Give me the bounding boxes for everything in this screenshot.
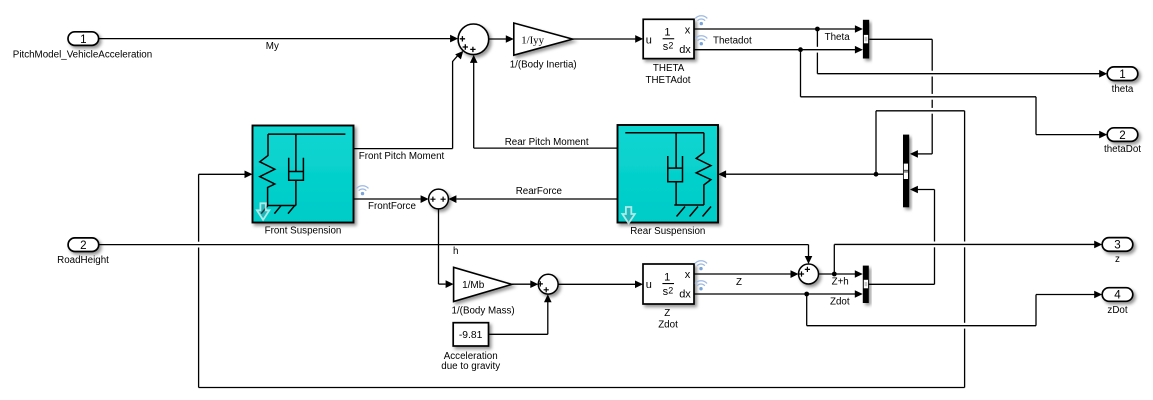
- wire FrontForce: [354, 198, 421, 200]
- rear suspension icon: spring: [696, 133, 711, 205]
- Rear Suspension subsystem: [618, 125, 719, 223]
- rear suspension icon: top bar: [625, 132, 704, 134]
- wire into bus3 lower input: [918, 189, 935, 191]
- wire thetaDot branch across: [801, 96, 1037, 98]
- sum block (front+rear force): [429, 189, 449, 209]
- front suspension icon: damper rod: [295, 134, 297, 171]
- outport 4 zDot: [1102, 288, 1133, 302]
- logging badge on FrontForce: [357, 186, 369, 196]
- svg-text:dx: dx: [679, 289, 691, 301]
- wire bus2 output: [869, 283, 935, 285]
- arrow into outport thetaDot: [1099, 131, 1107, 139]
- svg-text:Thetadot: Thetadot: [713, 36, 752, 47]
- front suspension icon: ground hatching: [261, 206, 294, 214]
- wire x output Theta: [694, 28, 856, 30]
- wire feedback riser to Front Suspension: [198, 174, 200, 387]
- arrow into outport theta: [1099, 70, 1107, 78]
- arrow into gain 1/Iyy: [506, 35, 514, 43]
- wire RearForce: [456, 198, 617, 200]
- arrow into Z+h sum north (down pointing): [805, 256, 813, 264]
- wire bus1 output: [869, 38, 932, 40]
- arrow into integrator Z: [635, 281, 643, 289]
- svg-text:due to gravity: due to gravity: [441, 361, 500, 372]
- wire to outport z: [834, 243, 1095, 245]
- outport 2 thetaDot: [1107, 128, 1138, 142]
- wire bottom feedback: [199, 387, 965, 389]
- svg-text:Z: Z: [664, 308, 670, 319]
- svg-text:FrontForce: FrontForce: [368, 201, 416, 212]
- wire gravity constant riser: [547, 302, 549, 334]
- wire Zdot branch across: [807, 325, 1036, 327]
- arrow into bus3 upper input (left pointing): [910, 150, 918, 158]
- svg-text:h: h: [453, 246, 458, 257]
- wire gain 1/Mb to gravity sum: [512, 283, 531, 285]
- svg-text:Front Suspension: Front Suspension: [265, 226, 342, 237]
- wire bus2 output riser up: [934, 190, 936, 285]
- svg-text:theta: theta: [1112, 84, 1134, 95]
- Front Suspension subsystem: [253, 126, 354, 223]
- inport 2 RoadHeight: [68, 238, 99, 252]
- inport 1 PitchModel_VehicleAcceleration: [68, 32, 99, 46]
- svg-text:THETAdot: THETAdot: [645, 75, 690, 86]
- wire zDot outport riser: [1035, 295, 1037, 326]
- svg-text:dx: dx: [679, 44, 691, 56]
- arrow into integrator THETA: [635, 35, 643, 43]
- node Z+h branch: [832, 272, 837, 277]
- svg-text:1: 1: [664, 27, 670, 39]
- integrator U1 THETA THETAdot: [643, 19, 694, 58]
- wire Zdot branch drop: [806, 294, 808, 326]
- svg-text:Rear Suspension: Rear Suspension: [630, 226, 705, 237]
- wire Rear Pitch Moment: [474, 147, 618, 149]
- wire gravity sum to integrator Z: [558, 283, 635, 285]
- rear suspension pale arrow badge: [622, 207, 634, 223]
- gain 1/Mb: [454, 267, 512, 301]
- svg-text:1: 1: [664, 272, 670, 284]
- arrow into Front Suspension: [245, 171, 253, 179]
- rear suspension icon: bottom bar: [674, 204, 704, 206]
- node Thetadot branch: [798, 47, 803, 52]
- front suspension icon: piston plate: [289, 171, 304, 173]
- wire sum to gain 1/Iyy: [489, 38, 507, 40]
- wire Z+h sum output: [819, 273, 856, 275]
- svg-text:-9.81: -9.81: [459, 330, 483, 341]
- svg-text:x: x: [685, 24, 691, 36]
- rear suspension icon: ground hatching: [677, 207, 712, 217]
- gain 1/Iyy: [514, 23, 573, 55]
- svg-text:2: 2: [668, 41, 673, 51]
- svg-text:4: 4: [1114, 289, 1121, 302]
- svg-text:x: x: [685, 269, 691, 281]
- wire gain to integrator THETA: [573, 38, 636, 40]
- node bus3 output branch: [874, 172, 879, 177]
- front suspension icon: spring: [260, 134, 275, 205]
- arrow into bus1 bottom: [855, 46, 863, 54]
- rear suspension icon: piston plate: [668, 167, 683, 169]
- wire bus3 output to Rear Suspension: [725, 173, 903, 175]
- sum block (pitch moments): [458, 24, 489, 55]
- integrator U2 Z Zdot: [643, 264, 694, 304]
- front suspension icon: top bar: [268, 133, 345, 135]
- arrow into sum south: [470, 55, 478, 63]
- arrow into sum southwest diagonal: [455, 48, 466, 59]
- wire to outport theta: [817, 73, 1100, 75]
- arrow into force sum west: [421, 195, 429, 203]
- wire feedback into Front Suspension: [199, 173, 245, 175]
- arrow into bus1 top: [855, 25, 863, 33]
- wire Z: [694, 273, 791, 275]
- bus creator 1 (Theta,Thetadot): [863, 20, 869, 59]
- wire bus1 output riser down: [931, 39, 933, 154]
- wire RoadHeight h: [99, 244, 808, 246]
- arrow into outport zDot: [1094, 291, 1102, 299]
- front suspension icon: lower rod: [295, 180, 297, 205]
- constant -9.81: [453, 323, 488, 346]
- wire long feedback riser right side: [964, 111, 966, 388]
- front suspension icon: damper cup: [289, 158, 304, 180]
- svg-text:1/(Body Mass): 1/(Body Mass): [452, 306, 515, 317]
- wire Front Pitch Moment riser + diagonal into sum: [453, 55, 459, 149]
- svg-text:1: 1: [80, 33, 86, 46]
- svg-text:zDot: zDot: [1107, 305, 1127, 316]
- wire bus3 branch top: [876, 110, 965, 112]
- arrow into Rear Suspension (left pointing): [718, 170, 726, 178]
- wire My: [99, 38, 451, 40]
- svg-text:Front Pitch Moment: Front Pitch Moment: [359, 151, 445, 162]
- svg-text:thetaDot: thetaDot: [1104, 144, 1141, 155]
- svg-text:Z: Z: [736, 277, 742, 288]
- rear suspension icon: damper rod: [675, 133, 677, 168]
- sum block (Z+h): [799, 264, 819, 284]
- outport 1 theta: [1107, 67, 1138, 81]
- wire bus3 output branch riser up: [875, 111, 877, 174]
- svg-text:Zdot: Zdot: [830, 296, 850, 307]
- logging badge on Zdot: [695, 281, 707, 291]
- logging badge on Thetadot: [695, 36, 707, 46]
- svg-text:Z+h: Z+h: [832, 277, 849, 288]
- logging badge on Theta: [695, 16, 707, 26]
- rear suspension icon: lower rod: [675, 182, 677, 205]
- wire thetaDot outport drop: [1035, 97, 1037, 135]
- svg-text:z: z: [1115, 254, 1120, 265]
- svg-text:2: 2: [668, 285, 673, 295]
- svg-text:3: 3: [1114, 239, 1120, 252]
- wire into bus3 upper input: [917, 153, 932, 155]
- svg-text:Theta: Theta: [825, 32, 851, 43]
- front suspension icon: bottom bar: [267, 205, 296, 207]
- svg-text:Rear Pitch Moment: Rear Pitch Moment: [505, 137, 589, 148]
- wire constant to gravity sum: [489, 333, 548, 335]
- svg-text:u: u: [646, 34, 652, 46]
- wire to outport zDot: [1036, 294, 1096, 296]
- svg-text:2: 2: [1119, 129, 1125, 142]
- arrow into outport z: [1094, 241, 1102, 249]
- sum block (gravity): [538, 274, 558, 294]
- bus creator 2 (Z+h,Zdot): [863, 266, 869, 303]
- wire dx output Thetadot: [694, 49, 856, 51]
- wire Thetadot branch riser: [800, 50, 802, 97]
- arrow into Z+h sum west: [791, 270, 799, 278]
- svg-text:RoadHeight: RoadHeight: [57, 255, 109, 266]
- svg-text:u: u: [646, 279, 652, 291]
- svg-text:1/Mb: 1/Mb: [462, 280, 485, 291]
- wire into gain 1/Mb: [439, 283, 446, 285]
- arrow into bus2 top: [855, 270, 863, 278]
- arrow into bus3 lower input (left pointing): [910, 186, 918, 194]
- arrow into force sum east (left pointing): [448, 195, 456, 203]
- wire RoadHeight drop into Z+h sum: [808, 245, 810, 257]
- wire Zdot: [694, 293, 856, 295]
- svg-text:THETA: THETA: [653, 63, 685, 74]
- svg-text:2: 2: [80, 239, 86, 252]
- outport 3 z: [1102, 238, 1133, 252]
- front suspension pale arrow badge: [257, 203, 269, 220]
- wire force-sum output down to 1/Mb feed: [438, 209, 440, 284]
- svg-text:RearForce: RearForce: [516, 186, 563, 197]
- svg-text:1/(Body Inertia): 1/(Body Inertia): [510, 59, 577, 70]
- svg-text:1/Iyy: 1/Iyy: [521, 35, 544, 47]
- rear suspension icon: damper cup: [668, 156, 683, 182]
- node Zdot branch: [804, 292, 809, 297]
- svg-text:Zdot: Zdot: [658, 320, 678, 331]
- wire Rear Pitch Moment riser to sum bottom: [473, 62, 475, 148]
- wire Front Pitch Moment: [354, 148, 453, 150]
- arrow into gravity sum west: [530, 280, 538, 288]
- arrow into gain 1/Mb: [446, 280, 454, 288]
- arrow into sum west: [450, 35, 458, 43]
- arrow into bus2 bottom: [855, 290, 863, 298]
- arrow into gravity sum south: [544, 294, 552, 302]
- wire Z+h branch riser to outport z: [833, 244, 835, 274]
- bus creator 3 (mirrored, to suspensions): [903, 135, 909, 208]
- svg-text:1: 1: [1119, 68, 1125, 81]
- wire Theta branch riser: [816, 29, 818, 74]
- node Theta branch: [815, 27, 820, 32]
- svg-text:My: My: [266, 41, 279, 52]
- logging badge on Z: [695, 261, 707, 271]
- svg-text:PitchModel_VehicleAcceleration: PitchModel_VehicleAcceleration: [13, 49, 152, 60]
- wire to outport thetaDot: [1036, 134, 1101, 136]
